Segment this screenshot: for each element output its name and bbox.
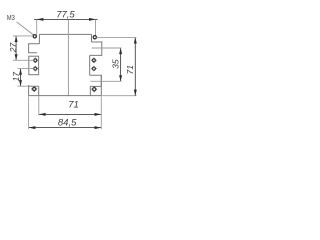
arrowhead left 71b [39, 113, 46, 116]
bottom-left screw hole with cross ticks [33, 87, 36, 90]
arrowhead down 27 [15, 54, 18, 60]
bottom baseline [29, 95, 101, 97]
arrowhead up 35 [119, 48, 122, 54]
bottom dim 84,5 line [29, 127, 102, 129]
left dim 17 vertical line [20, 69, 22, 87]
svg-text:84,5: 84,5 [58, 118, 77, 129]
ext vertical x=28.6 (84,5 left) [28, 96, 30, 129]
arrowhead right 84,5 [95, 126, 102, 129]
ext line y=48.0 (35 top) [92, 47, 122, 49]
svg-text:27: 27 [8, 42, 18, 54]
body right step vertical [91, 34, 93, 42]
center seam line [67, 20, 69, 96]
arrowhead up 17 [19, 69, 22, 75]
right box 1 (upper right terminal) [90, 42, 102, 55]
bottom-right screw hole with cross ticks [93, 88, 96, 91]
bottom-left bracket [29, 85, 39, 96]
arrowhead down 17 [19, 80, 22, 86]
ext line y=35.9 (left of top hole) [13, 35, 33, 37]
extension line top-right (x=95.5) [95, 20, 97, 35]
left box 2 (socket block) [29, 56, 39, 74]
right dim 35 vertical line [120, 48, 122, 81]
screw hole D right [92, 67, 95, 70]
body left step vertical [38, 34, 40, 43]
arrowhead down 71r [134, 90, 137, 96]
arrowhead right of 77,5 [89, 18, 96, 21]
top-right mounting hole [93, 36, 96, 39]
ext vertical x=101.0 (right, shared) [100, 96, 102, 129]
baseline extension to right dim [101, 95, 137, 97]
arrowhead right 71b [95, 113, 102, 116]
right box 2 (socket block right) [90, 55, 102, 86]
svg-text:71: 71 [125, 65, 135, 75]
svg-text:77,5: 77,5 [56, 10, 75, 21]
arrowhead up 27 [15, 36, 18, 42]
bottom dim 71 line [39, 113, 102, 115]
ext line y=68.6 (screw hole B) [18, 68, 34, 70]
bottom-right bracket [90, 75, 101, 95]
screw hole A in left box 2 [34, 59, 37, 62]
svg-text:M3: M3 [7, 13, 15, 22]
left dim 27 vertical line [15, 36, 17, 60]
screw hole C right [92, 59, 95, 62]
arrowhead up 71r [134, 37, 137, 43]
leader line from M3 to top-left hole [17, 22, 34, 35]
top-left mounting hole (M3) [33, 35, 36, 38]
ext line y=37.4 (top-right hole to 71 dim) [97, 36, 137, 38]
ext vertical x=38.8 (71 bottom left) [38, 96, 40, 115]
svg-text:71: 71 [68, 99, 79, 110]
svg-text:35: 35 [111, 59, 121, 69]
arrowhead left of 77,5 [37, 18, 44, 21]
screw hole B in left box 2 with cross ticks [34, 67, 37, 70]
arrowhead left 84,5 [29, 126, 36, 129]
extension line top-left (x=36.7) [36, 20, 38, 34]
dimension line 77,5 (top) [37, 18, 96, 20]
left box 1 (upper terminal) [29, 44, 40, 53]
ext line y=86.2 (bracket top) [18, 85, 29, 87]
ext line y=81.3 (35 bottom) [91, 80, 122, 82]
svg-text:17: 17 [11, 71, 21, 82]
right dim 71 vertical line [134, 37, 136, 95]
ext line y=60.3 (screw hole A) [13, 59, 34, 61]
body top edge [39, 33, 91, 35]
arrowhead down 35 [119, 75, 122, 81]
